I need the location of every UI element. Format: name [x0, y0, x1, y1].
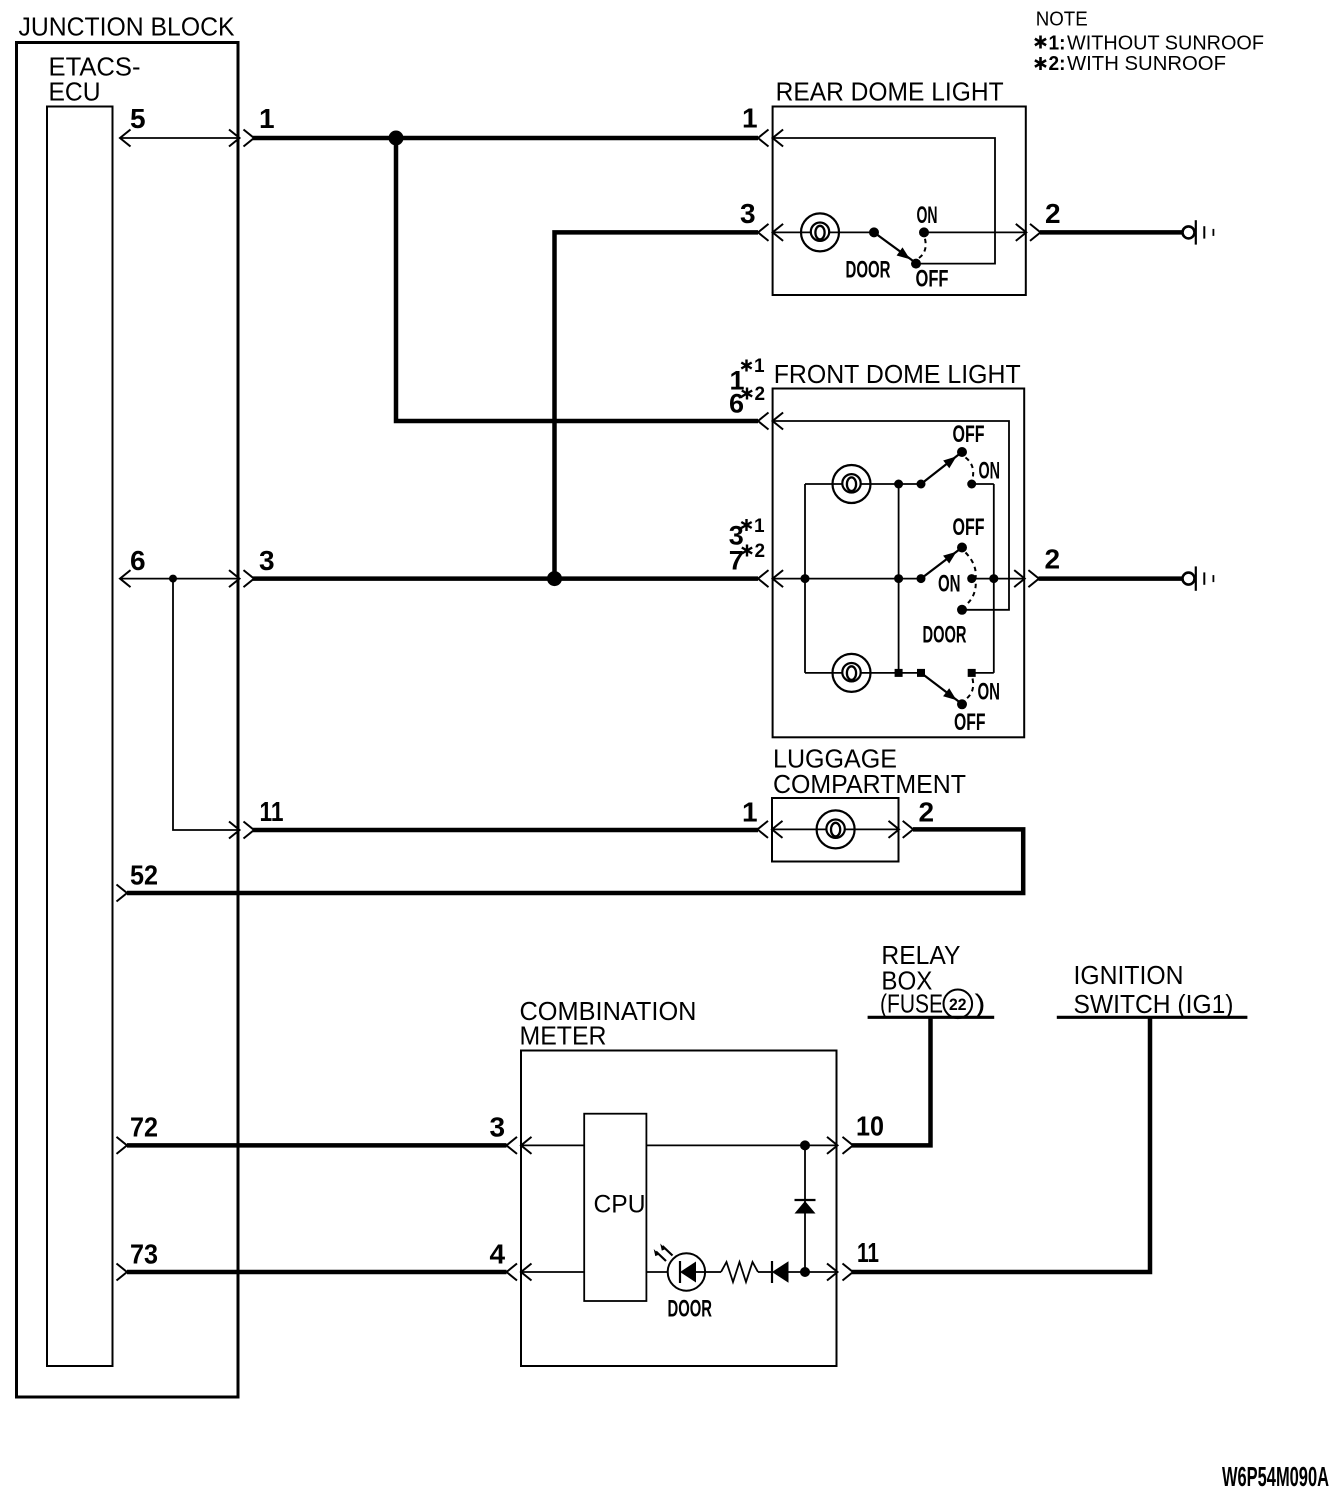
rear dome pin 2 exit arrowheads — [1016, 224, 1041, 241]
wire pin 73 to combination meter pin 4 — [127, 1270, 507, 1275]
wire rear dome pin 3 branch — [555, 232, 759, 578]
wire pin1 to rear dome light pin1 — [253, 136, 758, 141]
svg-text:OFF: OFF — [953, 421, 985, 448]
combination meter box — [521, 1051, 837, 1367]
svg-text:1: 1 — [754, 516, 765, 537]
svg-text:6: 6 — [130, 545, 146, 576]
svg-text:OFF: OFF — [916, 266, 949, 293]
svg-text:5: 5 — [130, 103, 146, 134]
pin 1 connector arrowheads at junction block edge — [229, 130, 254, 147]
svg-text:11: 11 — [260, 796, 284, 827]
pin 6 connector line — [120, 578, 238, 580]
front dome pins 3/7 entry arrowheads — [758, 570, 783, 587]
wire pin 72 to combination meter pin 3 — [127, 1143, 507, 1148]
rear dome internal feed wire from pin 1 — [773, 138, 995, 264]
rear dome light box — [773, 107, 1026, 296]
ground (rear dome) — [1183, 220, 1214, 244]
front dome switch1 blade — [921, 454, 960, 485]
front dome switch2 DOOR node — [957, 605, 967, 615]
svg-text:REAR DOME LIGHT: REAR DOME LIGHT — [776, 78, 1004, 106]
front dome switch2 blade — [921, 549, 960, 579]
branch line pin6 to pin 11 — [173, 579, 238, 830]
front dome switch3 ON wire to right bus — [972, 672, 994, 674]
front dome switch1 dashed arc — [966, 458, 974, 480]
front dome switch2 blade arrow — [943, 552, 956, 564]
wire rear dome pin 2 to ground — [1040, 230, 1182, 235]
svg-text:3: 3 — [740, 198, 756, 229]
node on pin 6 line — [169, 575, 177, 583]
pin 6 arrowhead (left) — [120, 570, 131, 587]
svg-text:2: 2 — [919, 797, 935, 828]
front dome switch3 blade arrow — [943, 688, 956, 700]
svg-text:ON: ON — [938, 571, 961, 598]
luggage pin 2 exit arrowheads — [889, 821, 914, 838]
front dome switch2 pivot — [917, 574, 926, 583]
front dome pin 2 exit arrowheads — [1014, 570, 1039, 587]
diode D2 (clamp, pointing up) — [795, 1200, 816, 1214]
LED (door indicator) — [668, 1253, 705, 1290]
meter wire CPU to pin 10 — [646, 1144, 837, 1146]
meter node on wire 10 — [800, 1140, 810, 1150]
svg-text:1: 1 — [742, 797, 758, 828]
front dome lamp 2 wire — [805, 672, 921, 674]
front dome node right bus — [989, 574, 998, 583]
ETACS-ECU box — [47, 107, 113, 1367]
svg-text:OFF: OFF — [954, 709, 986, 736]
rear dome switch pivot — [869, 227, 879, 237]
meter wire CPU to LED — [646, 1271, 668, 1273]
svg-text:7: 7 — [729, 545, 744, 575]
front dome pin 1*1 6*2 labels — [729, 356, 765, 418]
svg-text:52: 52 — [130, 860, 158, 891]
front dome switch1 ON wire to right bus — [972, 483, 994, 485]
pin 11 connector arrowheads at junction block edge — [229, 822, 254, 839]
front dome node left bus — [801, 574, 810, 583]
svg-text:ECU: ECU — [49, 79, 101, 107]
front dome switch2 OFF node — [957, 543, 967, 553]
pin 5 connector line — [120, 137, 238, 139]
svg-text:ON: ON — [917, 202, 938, 229]
svg-text:10: 10 — [856, 1111, 884, 1142]
meter pin 10 exit arrowheads — [827, 1137, 853, 1154]
rear dome internal wire pin3 to lamp to switch — [773, 231, 874, 233]
svg-text:IGNITION: IGNITION — [1074, 962, 1184, 990]
svg-text:2: 2 — [1045, 544, 1061, 575]
rear dome pin 3 entry arrowheads — [758, 224, 783, 241]
svg-text:2: 2 — [755, 384, 766, 405]
svg-text:W6P54M090A: W6P54M090A — [1222, 1461, 1329, 1492]
front dome light box — [773, 389, 1025, 738]
luggage lamp — [817, 810, 855, 848]
front dome switch3 dashed arc — [966, 679, 974, 700]
rear dome switch OFF contact node — [911, 259, 921, 269]
diode D2 branch vertical — [804, 1145, 806, 1272]
front dome switch2 ON node — [967, 574, 976, 583]
front dome pin 3*1 7*2 labels — [729, 516, 765, 575]
svg-text:DOOR: DOOR — [923, 622, 967, 649]
wire pin 52 to luggage pin 2 — [127, 829, 1023, 893]
front dome mid vertical bus — [898, 484, 900, 673]
svg-text:JUNCTION BLOCK: JUNCTION BLOCK — [19, 14, 235, 42]
svg-text:FRONT DOME LIGHT: FRONT DOME LIGHT — [774, 361, 1021, 389]
luggage compartment box — [772, 798, 899, 862]
front dome right vertical bus — [993, 484, 995, 673]
front dome switch3 OFF node — [957, 699, 967, 709]
svg-text:LUGGAGE: LUGGAGE — [773, 745, 897, 773]
wire branch down to front dome light pins 1/6 — [396, 138, 758, 421]
meter pin 3 entry arrowheads — [507, 1137, 532, 1154]
svg-text:1: 1 — [259, 103, 275, 134]
front dome lamp 1 wire — [805, 483, 921, 485]
diode D1 (series) — [772, 1261, 789, 1283]
svg-text:(FUSE: (FUSE — [880, 990, 943, 1018]
front dome left vertical bus — [804, 484, 806, 673]
wire pin3 to front dome light — [253, 576, 758, 581]
pin 5 arrowhead (left) — [120, 130, 131, 147]
wire LED to resistor — [705, 1271, 721, 1273]
wire pin 10 to relay box — [852, 1018, 931, 1145]
svg-text:): ) — [975, 990, 986, 1018]
front dome switch3 blade — [921, 673, 960, 703]
front dome feed wire from pins 1/6 to DOOR contact — [773, 421, 1009, 610]
svg-text:73: 73 — [130, 1239, 158, 1270]
pin 3 connector arrowheads at junction block edge — [229, 570, 254, 587]
svg-text:WITHOUT SUNROOF: WITHOUT SUNROOF — [1067, 32, 1264, 54]
front dome node mid bus — [894, 574, 903, 583]
meter pin 11 exit arrowheads — [827, 1264, 853, 1281]
svg-text:2: 2 — [1045, 198, 1061, 229]
svg-text:METER: METER — [520, 1022, 607, 1050]
svg-text:ON: ON — [979, 458, 1001, 485]
front dome switch1 blade arrow — [943, 456, 956, 468]
LED light rays — [656, 1246, 673, 1261]
svg-text:ETACS-: ETACS- — [49, 54, 141, 82]
rear dome dashed arc OFF to ON — [919, 237, 926, 258]
front dome switch2 dashed arc — [966, 553, 976, 606]
rear dome lamp — [801, 213, 839, 251]
rear dome switch blade arrow — [897, 247, 910, 259]
svg-text:72: 72 — [130, 1112, 158, 1143]
rear dome ON wire to pin 2 — [924, 231, 1026, 233]
luggage lamp wire — [772, 828, 899, 830]
front dome lamp 1 — [833, 465, 871, 503]
meter node on wire 11 — [800, 1267, 810, 1277]
front dome pins 1/6 entry arrowheads — [758, 413, 783, 430]
relay box terminal line — [868, 1016, 995, 1019]
pin 72 arrowhead — [117, 1137, 128, 1154]
svg-text:2:: 2: — [1049, 53, 1066, 75]
wire pin11 to luggage lamp — [253, 828, 758, 833]
svg-text:1: 1 — [742, 103, 758, 134]
svg-text:11: 11 — [857, 1237, 879, 1268]
svg-text:3: 3 — [259, 545, 275, 576]
svg-text:22: 22 — [949, 995, 967, 1014]
front dome switch1 nodes — [894, 480, 903, 489]
pin 52 arrowhead — [117, 885, 128, 902]
svg-text:CPU: CPU — [594, 1191, 646, 1219]
wire pin 11 to ignition switch — [852, 1018, 1150, 1272]
svg-text:1: 1 — [754, 356, 765, 377]
front dome lamp 2 — [833, 654, 871, 692]
svg-text:2: 2 — [755, 541, 766, 562]
svg-text:COMPARTMENT: COMPARTMENT — [773, 771, 966, 799]
pin 73 arrowhead — [117, 1264, 128, 1281]
wire front dome pin 2 to ground — [1039, 576, 1183, 581]
svg-text:4: 4 — [490, 1239, 506, 1270]
wire resistor to diode — [758, 1271, 772, 1273]
svg-text:3: 3 — [490, 1112, 506, 1143]
rear dome switch blade — [874, 232, 914, 261]
front dome switch3 square contacts — [895, 669, 903, 677]
note asterisk 1 — [1035, 36, 1046, 49]
svg-text:WITH SUNROOF: WITH SUNROOF — [1067, 53, 1226, 75]
svg-text:RELAY: RELAY — [881, 942, 960, 970]
wire diode to pin 11 — [789, 1271, 838, 1273]
CPU box — [584, 1114, 646, 1301]
meter wire pin3 to CPU — [521, 1144, 584, 1146]
svg-text:OFF: OFF — [953, 514, 985, 541]
svg-text:NOTE: NOTE — [1036, 8, 1088, 30]
fuse 22 circle — [944, 990, 973, 1019]
resistor — [721, 1262, 758, 1282]
rear dome switch ON contact node — [919, 227, 929, 237]
svg-text:DOOR: DOOR — [846, 257, 891, 284]
junction node on wire 1 — [389, 131, 404, 146]
svg-text:DOOR: DOOR — [668, 1296, 713, 1323]
front dome switch1 OFF node — [957, 447, 967, 457]
note asterisk 2 — [1035, 57, 1046, 70]
svg-text:ON: ON — [978, 679, 1001, 706]
front dome main wire pins 3/7 across box — [773, 578, 921, 580]
meter pin 4 entry arrowheads — [507, 1264, 532, 1281]
rear dome pin 1 entry arrowheads — [758, 130, 783, 147]
svg-text:6: 6 — [729, 388, 744, 418]
ground (front dome) — [1183, 566, 1214, 590]
svg-text:SWITCH (IG1): SWITCH (IG1) — [1074, 991, 1234, 1019]
meter wire pin4 to CPU — [521, 1271, 584, 1273]
svg-text:1:: 1: — [1049, 32, 1066, 54]
junction node wire3 / rear dome pin3 branch — [547, 571, 562, 586]
ignition switch terminal line — [1057, 1016, 1248, 1019]
junction block box — [17, 43, 239, 1398]
luggage pin 1 entry arrowheads — [758, 821, 783, 838]
front dome switch1 ON node — [967, 480, 976, 489]
